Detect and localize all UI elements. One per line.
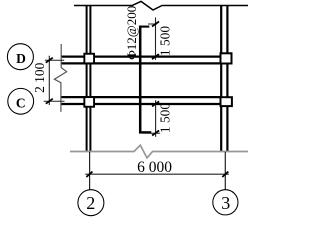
- dimension 1500 bottom tick upper: [152, 101, 159, 106]
- grid line 3 below section: [224, 152, 226, 190]
- rebar bottom hook: [139, 131, 151, 133]
- dimension 6000 tick right: [222, 172, 228, 177]
- dimension 1500 bottom tick lower: [152, 131, 159, 136]
- top slab edge line with break: [74, 1, 248, 10]
- dimension 2100 tick C: [46, 99, 53, 104]
- beam C top line: [61, 96, 220, 98]
- beam D top line: [61, 55, 220, 57]
- dimension 6000 tick left: [86, 172, 92, 177]
- dimension 6000 line: [85, 173, 229, 175]
- dimension 1500 top ext line: [148, 23, 157, 25]
- dimension 1500 bottom line: [155, 100, 157, 137]
- dimension 2100 ext line D: [45, 59, 64, 61]
- dimension 1500 bottom ext line: [143, 132, 160, 134]
- grid bubble 2 circle: [78, 190, 104, 216]
- svg-text:1 500: 1 500: [158, 103, 173, 133]
- rebar top hook: [139, 26, 149, 28]
- column grid3 left line: [220, 5, 222, 152]
- grid bubble 3 circle: [213, 190, 238, 215]
- dimension 1500 top tick upper: [152, 22, 159, 27]
- node square grid3/C: [221, 97, 232, 106]
- dimension 1500 top line: [155, 18, 157, 60]
- svg-text:1 500: 1 500: [158, 26, 173, 56]
- column grid2 left line: [86, 5, 88, 152]
- node square grid2/D: [84, 54, 94, 64]
- svg-text:Φ12@200: Φ12@200: [124, 6, 139, 60]
- grid line 2 below section: [89, 152, 91, 190]
- grid bubble D circle: [7, 44, 33, 70]
- svg-text:2: 2: [86, 193, 95, 213]
- svg-text:3: 3: [221, 193, 230, 213]
- svg-text:6 000: 6 000: [137, 159, 172, 176]
- beam D bottom line: [61, 62, 220, 64]
- dimension 2100 tick D: [46, 58, 53, 63]
- rebar bar vertical: [139, 26, 142, 134]
- ground/section gray line with break: [70, 145, 248, 158]
- node square grid2/C: [84, 97, 94, 107]
- dimension 1500 top tick lower: [152, 54, 159, 59]
- svg-text:C: C: [16, 96, 26, 111]
- svg-text:2 100: 2 100: [32, 62, 47, 92]
- beam C bottom line: [61, 103, 220, 105]
- grid bubble C circle: [8, 88, 34, 114]
- left edge line with break (beams terminate here): [54, 44, 66, 112]
- dimension 2100 ext line C: [44, 100, 65, 102]
- node square grid3/D: [221, 53, 232, 63]
- column grid3 right line: [226, 5, 228, 152]
- dimension 2100 line: [48, 56, 50, 105]
- column grid2 right line: [89, 5, 91, 152]
- svg-text:D: D: [16, 51, 26, 66]
